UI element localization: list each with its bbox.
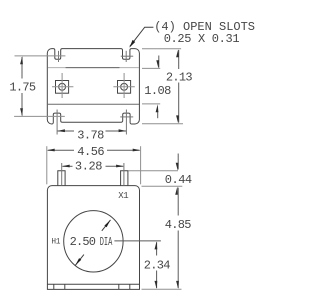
bottom extension line [142,288,182,290]
centerline cross left terminal [52,86,73,88]
dimension 3.78 (below top view) [58,130,126,132]
dimension 0.44 (right of terminals) [129,171,183,187]
terminal circle left (top view) [59,83,66,90]
svg-text:H1: H1 [51,239,60,247]
dimension 3.28 [63,165,124,167]
core window circle [64,211,123,272]
svg-text:DIA: DIA [100,236,113,249]
slot centerline bottom-left [56,110,58,135]
svg-text:1.08: 1.08 [144,84,171,98]
svg-text:3.28: 3.28 [75,160,102,174]
leader arrow to open slot [130,27,154,46]
terminal circle right (top view) [121,83,128,90]
front terminal left centerline [61,163,63,186]
base strip tick 2 [64,284,66,289]
svg-text:2.13: 2.13 [166,70,193,84]
top view inner top line [48,67,139,69]
slot centerline top-right [125,51,127,62]
dimension 1.75 (left) [21,57,23,116]
svg-text:4.85: 4.85 [165,218,192,232]
front terminal right centerline [123,163,125,186]
front view body outline [47,186,139,290]
svg-text:0.44: 0.44 [165,173,192,187]
dimension 1.08 (right inner) [142,68,160,104]
svg-text:2.50: 2.50 [70,235,96,249]
diameter arrow lower-left [75,255,84,266]
slot centerline bottom-right [125,110,127,135]
terminal square right (top view) [118,81,131,94]
leader line from DIA text [114,240,160,242]
dimension 4.85 (right of front view) [177,188,179,288]
front terminal left [58,171,65,186]
terminal square left (top view) [56,81,69,94]
dimension 2.13 (right of top view) [142,49,183,124]
dimension 2.34 [156,242,158,288]
slot centerline top-left [58,51,60,62]
dimension 4.56 (top of front view) [47,146,141,184]
base strip tick 4 [129,284,131,289]
svg-text:1.75: 1.75 [9,81,36,95]
base strip tick 3 [118,284,120,289]
svg-text:3.78: 3.78 [77,128,104,142]
diameter arrow upper-right [102,220,111,231]
top view body outline [47,49,139,124]
front view base strip line [47,283,139,285]
base strip tick 1 [53,284,55,289]
centerline cross right terminal [113,86,134,88]
svg-text:4.56: 4.56 [77,145,104,159]
front terminal right [121,171,128,186]
svg-text:X1: X1 [118,191,128,201]
svg-text:0.25 X 0.31: 0.25 X 0.31 [164,32,240,46]
svg-text:2.34: 2.34 [144,258,171,272]
top view inner bottom line [48,103,139,105]
